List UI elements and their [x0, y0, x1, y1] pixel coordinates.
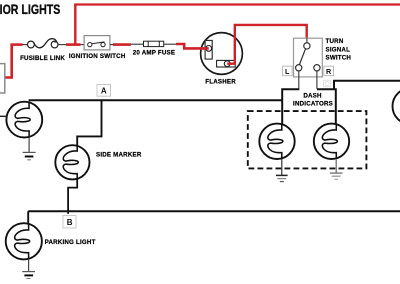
wire left dash indicator to ground	[281, 159, 283, 175]
fusible link	[28, 39, 58, 48]
node A label	[97, 85, 111, 97]
svg-text:SIDE MARKER: SIDE MARKER	[96, 151, 142, 158]
wire stub into left lamp from image edge	[0, 115, 7, 117]
svg-text:TURN: TURN	[326, 38, 344, 45]
ignition switch	[84, 36, 110, 50]
wire red fusible link to ignition switch	[66, 43, 81, 46]
wire front left lamp to ground	[28, 137, 30, 152]
wire red to fusible link	[10, 43, 22, 46]
svg-text:IGNITION SWITCH: IGNITION SWITCH	[69, 53, 126, 60]
svg-text:B: B	[67, 218, 73, 227]
dash indicators enclosure (dashed)	[248, 111, 367, 168]
wire red ignition switch to fuse	[113, 43, 131, 46]
component connector block (cut off at left edge)	[0, 64, 5, 93]
label SIDE MARKER	[96, 151, 142, 158]
svg-text:DASH: DASH	[303, 92, 322, 99]
ground parking light	[22, 272, 35, 279]
wire parking light to ground	[28, 259, 30, 271]
lamp dash indicator right	[314, 124, 349, 160]
label FUSIBLE LINK	[20, 55, 65, 62]
wire side marker branch	[77, 100, 101, 146]
wire thin lead from fuse	[164, 43, 177, 45]
wire thin lead from ignition switch	[110, 44, 113, 46]
wire red battery feed vertical (left edge)	[5, 46, 12, 78]
wire thin lead into fuse	[131, 43, 144, 45]
ground left dash indicator	[276, 175, 288, 181]
svg-text:A: A	[101, 87, 107, 96]
svg-text:L: L	[285, 67, 290, 76]
wire R feed junction	[317, 89, 336, 123]
wire B bus to parking light	[27, 211, 29, 223]
fuse 20 amp	[144, 41, 164, 46]
svg-text:INDICATORS: INDICATORS	[293, 101, 333, 108]
label IGNITION SWITCH	[69, 53, 126, 60]
flasher	[201, 33, 243, 75]
wire from R terminal	[316, 71, 318, 89]
wire red flasher output to turn signal switch	[227, 25, 307, 64]
wire right front lamp circle (cut off at right edge)	[393, 88, 400, 124]
wire circuit B bus	[28, 210, 400, 212]
label PARKING LIGHT	[45, 239, 96, 246]
title EXTERIOR LIGHTS	[0, 2, 60, 18]
wire side marker to circuit B	[68, 179, 77, 214]
svg-text:FUSIBLE LINK: FUSIBLE LINK	[20, 55, 65, 62]
lamp parking light	[6, 223, 42, 259]
label FLASHER	[205, 78, 236, 85]
ground right dash indicator	[330, 173, 343, 179]
ground front left lamp	[23, 152, 36, 159]
wire L feed to left dash indicator	[282, 89, 299, 123]
terminal label L	[282, 66, 292, 76]
wire thin lead from fusible link	[58, 44, 66, 46]
turn signal switch	[294, 38, 323, 77]
wire red top power bus	[74, 3, 400, 5]
lamp front left (cut off label)	[6, 102, 42, 138]
wire from L terminal	[298, 71, 300, 89]
lamp side marker	[55, 145, 89, 179]
wire thin lead into ignition switch	[81, 44, 85, 46]
svg-text:SIGNAL: SIGNAL	[326, 46, 351, 53]
wire right dash indicator to ground	[335, 159, 337, 173]
wire circuit A bus	[29, 99, 283, 101]
svg-text:IOR LIGHTS: IOR LIGHTS	[0, 2, 60, 18]
svg-text:R: R	[326, 67, 332, 76]
wire red riser to top bus	[74, 5, 76, 45]
svg-text:FLASHER: FLASHER	[205, 78, 236, 85]
lamp dash indicator left	[259, 124, 294, 160]
label DASH INDICATORS	[293, 92, 333, 107]
wire red fuse to flasher	[176, 44, 209, 48]
terminal label R	[324, 66, 334, 76]
label TURN SIGNAL SWITCH	[326, 38, 352, 62]
wire thin lead into fusible link	[23, 44, 28, 46]
svg-text:PARKING LIGHT: PARKING LIGHT	[45, 239, 96, 246]
faint connector mark below R	[324, 80, 331, 86]
svg-text:SWITCH: SWITCH	[326, 55, 352, 62]
label 20 AMP FUSE	[133, 50, 175, 57]
wire R feed to right front lamp	[334, 81, 400, 90]
svg-text:20 AMP FUSE: 20 AMP FUSE	[133, 50, 175, 57]
node B label	[63, 216, 76, 229]
